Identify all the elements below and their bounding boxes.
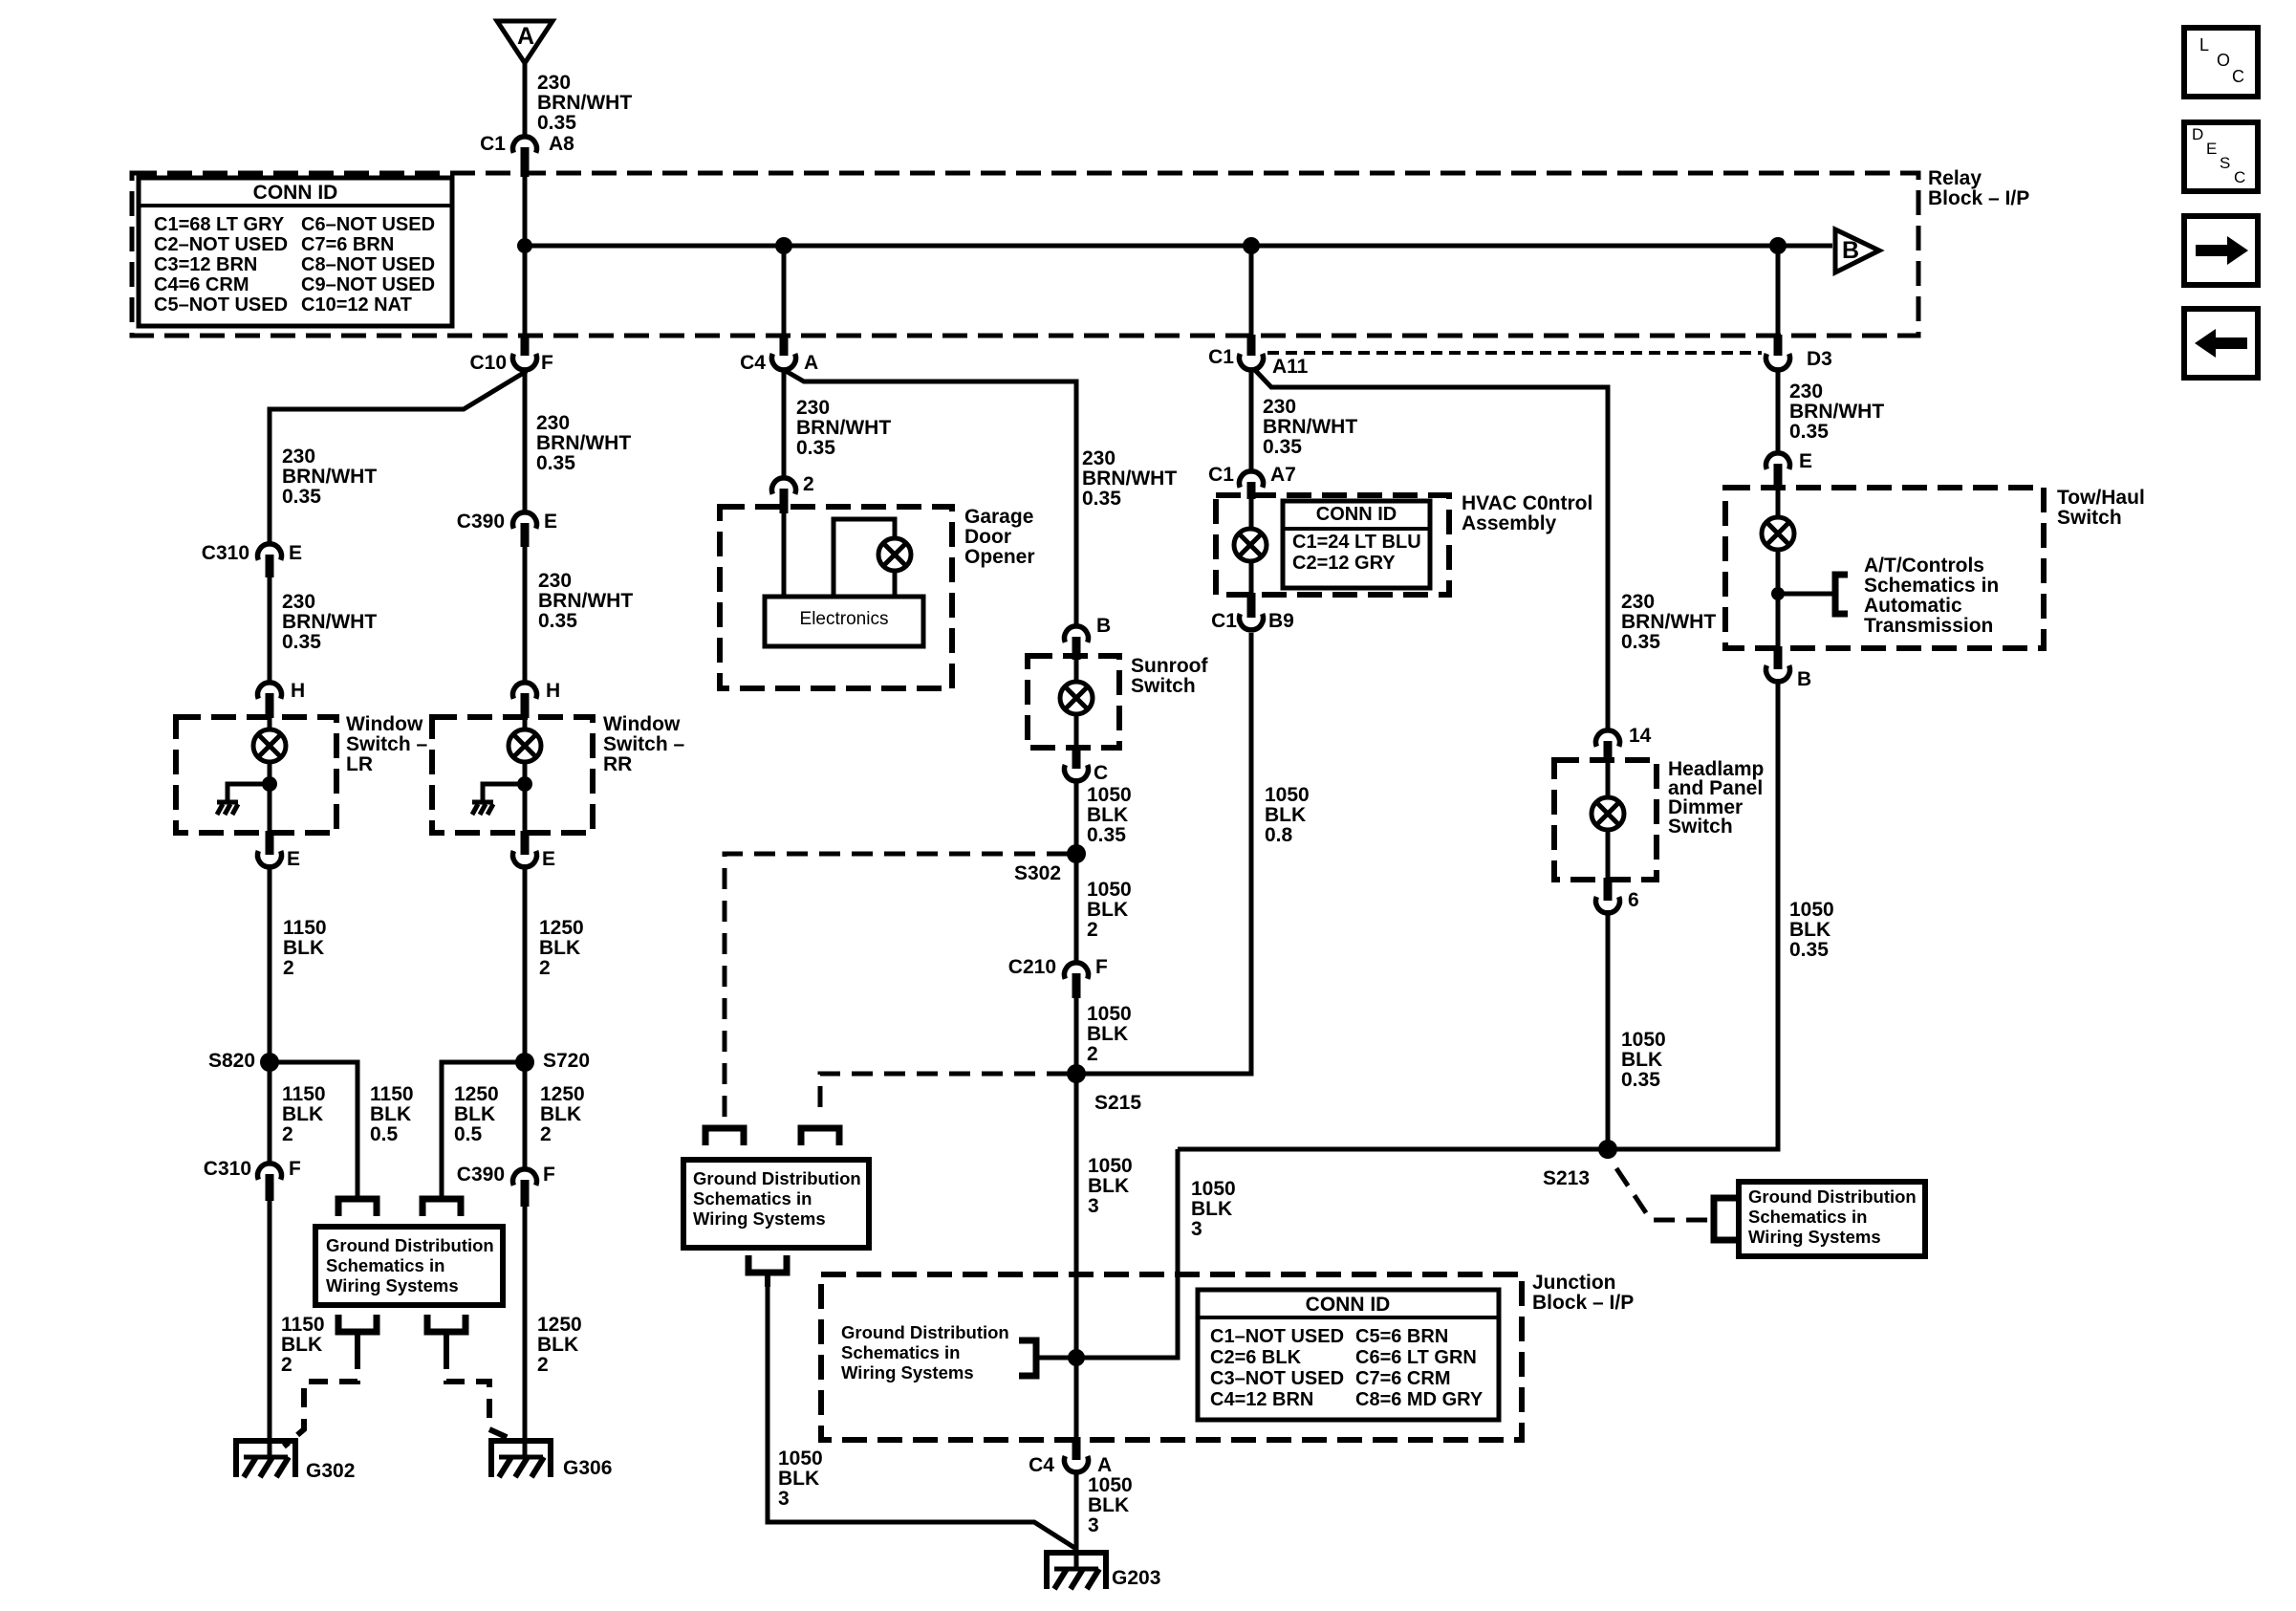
svg-text:BLK: BLK xyxy=(1191,1198,1232,1220)
svg-text:C1: C1 xyxy=(480,133,506,155)
svg-text:L: L xyxy=(2199,35,2209,54)
junction dot tow/haul xyxy=(1771,587,1785,600)
wire stub x820 relay xyxy=(782,246,787,337)
label A/T/Controls Schematics xyxy=(1864,555,1999,637)
svg-text:E: E xyxy=(287,848,300,870)
svg-text:S720: S720 xyxy=(543,1050,590,1072)
label 230 BRN/WHT 0.35 (left lower) xyxy=(282,591,377,653)
svg-text:RR: RR xyxy=(603,753,632,775)
connector C310 E xyxy=(202,542,302,577)
label 1150 BLK 2 (E to S820) xyxy=(283,917,327,979)
wire C310/F to G302 xyxy=(268,1199,272,1457)
wire D3 to E xyxy=(1776,370,1781,452)
svg-text:14: 14 xyxy=(1629,725,1652,747)
svg-text:2: 2 xyxy=(281,1354,292,1376)
svg-text:230: 230 xyxy=(282,591,315,613)
svg-text:0.35: 0.35 xyxy=(1789,421,1829,443)
svg-text:0.35: 0.35 xyxy=(536,452,575,474)
svg-text:0.8: 0.8 xyxy=(1265,824,1293,846)
svg-text:A/T/Controls: A/T/Controls xyxy=(1864,555,1984,577)
wire C4/A to G203 xyxy=(1074,1469,1079,1569)
ground distribution schematics box (right) xyxy=(1739,1182,1925,1256)
svg-text:2: 2 xyxy=(537,1354,549,1376)
svg-text:0.5: 0.5 xyxy=(370,1123,399,1145)
svg-text:BLK: BLK xyxy=(778,1468,819,1490)
splice S215 xyxy=(1067,1064,1141,1114)
svg-text:1150: 1150 xyxy=(281,1314,325,1336)
icon LOC xyxy=(2184,28,2258,97)
HVAC control assembly dashed box xyxy=(1216,495,1449,595)
svg-text:C1–NOT USED: C1–NOT USED xyxy=(1210,1326,1344,1347)
label 1050 BLK 2 (C210 to S215) xyxy=(1087,1003,1132,1065)
connector C1 A11 xyxy=(1208,335,1309,378)
svg-text:C2–NOT USED: C2–NOT USED xyxy=(154,234,288,255)
svg-text:BLK: BLK xyxy=(281,1334,322,1356)
bracket junction block xyxy=(1019,1340,1036,1376)
label Tow/Haul Switch xyxy=(2057,487,2145,529)
svg-text:Switch: Switch xyxy=(1668,816,1733,838)
label 230 BRN/WHT 0.35 (headlamp) xyxy=(1621,591,1716,653)
svg-text:BLK: BLK xyxy=(1789,919,1830,941)
ground distribution schematics box (left) xyxy=(315,1227,503,1305)
svg-text:C4: C4 xyxy=(740,352,766,374)
svg-text:Ground Distribution: Ground Distribution xyxy=(841,1322,1009,1342)
svg-text:Block – I/P: Block – I/P xyxy=(1532,1292,1634,1314)
svg-text:230: 230 xyxy=(1082,447,1116,469)
svg-text:A8: A8 xyxy=(549,133,574,155)
bracket into ground-distribution box (left) xyxy=(338,1199,377,1216)
svg-text:Ground Distribution: Ground Distribution xyxy=(693,1168,861,1188)
splice S720 xyxy=(515,1050,590,1072)
bracket below GD box (right) xyxy=(427,1315,466,1350)
svg-text:1050: 1050 xyxy=(1789,899,1834,921)
svg-text:230: 230 xyxy=(1263,396,1296,418)
svg-text:C1: C1 xyxy=(1208,346,1234,368)
connector H (LR) xyxy=(258,680,306,718)
svg-text:1150: 1150 xyxy=(370,1083,414,1105)
connector E (RR) xyxy=(513,831,556,870)
svg-text:Opener: Opener xyxy=(964,546,1035,568)
splice S302 xyxy=(1014,844,1086,884)
svg-text:2: 2 xyxy=(539,957,551,979)
svg-text:BLK: BLK xyxy=(1087,899,1128,921)
wire S820 to left bracket xyxy=(270,1062,357,1200)
connector C10 F xyxy=(469,335,553,374)
junction dot bus x1860 xyxy=(1769,237,1787,254)
wire C390/E to H xyxy=(523,545,528,681)
wire S720 down to C390/F xyxy=(523,1062,528,1168)
svg-text:1050: 1050 xyxy=(1087,784,1132,806)
svg-text:O: O xyxy=(2217,51,2230,70)
wire stub x1860 relay xyxy=(1776,246,1781,337)
svg-text:LR: LR xyxy=(346,753,373,775)
svg-text:2: 2 xyxy=(283,957,294,979)
svg-text:B: B xyxy=(1096,615,1111,637)
sunroof switch dashed box xyxy=(1028,656,1119,748)
svg-text:BLK: BLK xyxy=(539,937,580,959)
relay block dashed outline xyxy=(132,173,1918,336)
label 230 BRN/WHT 0.35 (right of C390) xyxy=(538,570,633,632)
CONN ID table (HVAC) xyxy=(1283,501,1430,588)
svg-text:C8–NOT USED: C8–NOT USED xyxy=(301,254,435,275)
wire 6 to S213 xyxy=(1606,910,1611,1149)
svg-text:Garage: Garage xyxy=(964,506,1033,528)
svg-text:HVAC C0ntrol: HVAC C0ntrol xyxy=(1462,492,1592,514)
svg-text:C10=12 NAT: C10=12 NAT xyxy=(301,294,412,316)
svg-text:1050: 1050 xyxy=(1621,1029,1666,1051)
svg-text:CONN ID: CONN ID xyxy=(1306,1294,1391,1316)
connector E (LR) xyxy=(258,831,301,870)
wire E to S720 xyxy=(523,864,528,1062)
svg-text:0.35: 0.35 xyxy=(1087,824,1126,846)
svg-text:D3: D3 xyxy=(1807,348,1832,370)
svg-text:S302: S302 xyxy=(1014,862,1061,884)
svg-text:S213: S213 xyxy=(1543,1167,1590,1189)
svg-text:Schematics in: Schematics in xyxy=(693,1188,812,1208)
connector 6 xyxy=(1595,878,1638,913)
junction dot LR xyxy=(262,776,277,792)
svg-text:C1=68 LT GRY: C1=68 LT GRY xyxy=(154,214,285,235)
svg-text:0.35: 0.35 xyxy=(537,112,576,134)
svg-text:Relay: Relay xyxy=(1928,167,1982,189)
connector 2 (garage door opener) xyxy=(772,473,814,513)
svg-text:BLK: BLK xyxy=(1088,1494,1129,1516)
svg-text:E: E xyxy=(544,511,557,533)
svg-text:Schematics in: Schematics in xyxy=(1864,575,1999,597)
ground tap RR xyxy=(483,784,525,802)
svg-text:1250: 1250 xyxy=(454,1083,499,1105)
svg-text:Transmission: Transmission xyxy=(1864,615,1993,637)
wire C4/A diagonal to sunroof feed xyxy=(786,371,1076,626)
svg-text:Schematics in: Schematics in xyxy=(326,1255,444,1275)
off-page connector triangle B xyxy=(1835,229,1879,272)
ground G203 xyxy=(1044,1553,1160,1589)
label 1050 BLK 0.35 (tow/haul down) xyxy=(1789,899,1834,961)
svg-text:C4=6 CRM: C4=6 CRM xyxy=(154,274,249,295)
label 1050 BLK 0.35 (sunroof) xyxy=(1087,784,1132,846)
junction dot bus x549 xyxy=(517,238,532,253)
CONN ID table (junction block) xyxy=(1198,1290,1499,1420)
bracket below GD box (left) xyxy=(338,1315,377,1350)
bracket into GD box3 xyxy=(1714,1198,1737,1240)
wire S720 to right bracket xyxy=(442,1062,525,1200)
svg-text:BLK: BLK xyxy=(1087,804,1128,826)
svg-text:B: B xyxy=(1842,237,1859,264)
icon DESC xyxy=(2184,122,2258,191)
dashed wire S213 to GD bracket xyxy=(1616,1168,1710,1220)
svg-text:E: E xyxy=(289,542,302,564)
lamp (garage door opener) xyxy=(834,519,911,599)
svg-text:C7=6 CRM: C7=6 CRM xyxy=(1355,1368,1450,1389)
label HVAC C0ntrol Assembly xyxy=(1462,492,1592,534)
svg-text:A7: A7 xyxy=(1270,464,1296,486)
dashed path to G302 xyxy=(284,1350,357,1447)
wire C4/A to connector 2 xyxy=(782,370,787,476)
svg-text:E: E xyxy=(2206,140,2217,158)
label 1150 BLK 0.5 xyxy=(370,1083,414,1145)
label 1050 BLK 3 (S215 down) xyxy=(1088,1155,1133,1217)
svg-text:Schematics in: Schematics in xyxy=(1748,1207,1867,1227)
svg-text:1150: 1150 xyxy=(282,1083,326,1105)
wire C210/F to S215 xyxy=(1074,996,1079,1074)
connector C4 A (junction block bottom) xyxy=(1029,1437,1112,1476)
svg-text:C: C xyxy=(1094,762,1108,784)
svg-text:E: E xyxy=(542,848,555,870)
svg-text:1250: 1250 xyxy=(539,917,584,939)
svg-text:BRN/WHT: BRN/WHT xyxy=(1621,611,1716,633)
svg-text:1050: 1050 xyxy=(1088,1474,1133,1496)
bus wire inside relay block xyxy=(525,244,1832,249)
svg-text:C4: C4 xyxy=(1029,1454,1054,1476)
svg-text:C1: C1 xyxy=(1211,610,1237,632)
lamp (HVAC) xyxy=(1234,499,1267,597)
svg-text:S215: S215 xyxy=(1094,1092,1141,1114)
svg-text:G203: G203 xyxy=(1112,1567,1160,1589)
wire stub x549 relay xyxy=(523,175,528,337)
bracket into GD box2 (left) xyxy=(705,1128,744,1145)
svg-text:Switch: Switch xyxy=(2057,507,2122,529)
garage door opener dashed box xyxy=(720,507,952,688)
svg-text:230: 230 xyxy=(282,446,315,468)
svg-text:B9: B9 xyxy=(1268,610,1294,632)
svg-text:C390: C390 xyxy=(457,511,505,533)
svg-text:C310: C310 xyxy=(202,542,249,564)
chassis ground (RR internal) xyxy=(472,802,493,815)
svg-text:CONN ID: CONN ID xyxy=(253,182,338,204)
wire to A/T bracket xyxy=(1778,592,1835,597)
svg-text:1050: 1050 xyxy=(778,1448,823,1469)
label Garage Door Opener xyxy=(964,506,1035,568)
svg-text:BLK: BLK xyxy=(537,1334,578,1356)
svg-text:1050: 1050 xyxy=(1265,784,1310,806)
svg-text:S820: S820 xyxy=(208,1050,255,1072)
wire stub x1309 relay xyxy=(1249,246,1254,337)
svg-text:Electronics: Electronics xyxy=(800,609,889,629)
svg-text:0.35: 0.35 xyxy=(1789,939,1829,961)
label 1250 BLK 2 (to G306) xyxy=(537,1314,582,1376)
svg-text:BRN/WHT: BRN/WHT xyxy=(282,611,377,633)
svg-text:Ground Distribution: Ground Distribution xyxy=(326,1235,494,1255)
wire S215 to junction block xyxy=(1074,1074,1079,1439)
svg-text:C210: C210 xyxy=(1008,956,1056,978)
connector C1 A7 xyxy=(1208,464,1296,499)
svg-text:230: 230 xyxy=(1621,591,1655,613)
label 1050 BLK 3 (junction drop) xyxy=(1191,1178,1236,1240)
svg-text:0.35: 0.35 xyxy=(538,610,577,632)
label 1250 BLK 0.5 xyxy=(454,1083,499,1145)
svg-text:1250: 1250 xyxy=(540,1083,585,1105)
wire C310/E to H xyxy=(268,576,272,681)
svg-text:2: 2 xyxy=(1087,919,1098,941)
svg-text:3: 3 xyxy=(778,1488,790,1510)
svg-text:C: C xyxy=(2234,168,2245,186)
svg-text:2: 2 xyxy=(282,1123,293,1145)
label Headlamp and Panel Dimmer Switch xyxy=(1668,758,1764,838)
wire lamp to box bottom LR xyxy=(268,761,272,834)
svg-text:BLK: BLK xyxy=(282,1103,323,1125)
svg-text:A: A xyxy=(517,23,534,50)
svg-text:0.35: 0.35 xyxy=(1082,488,1121,510)
connector D3 xyxy=(1766,335,1832,370)
svg-text:2: 2 xyxy=(540,1123,552,1145)
svg-text:Block – I/P: Block – I/P xyxy=(1928,187,2029,209)
svg-text:S: S xyxy=(2220,154,2230,172)
label 1250 BLK 2 (E to S720) xyxy=(539,917,584,979)
connector 14 xyxy=(1595,725,1651,762)
svg-text:1150: 1150 xyxy=(283,917,327,939)
svg-text:3: 3 xyxy=(1088,1195,1099,1217)
connector B (sunroof) xyxy=(1065,615,1112,660)
ground tap LR xyxy=(227,784,270,802)
svg-text:Switch: Switch xyxy=(1131,675,1196,697)
svg-text:C6=6 LT GRN: C6=6 LT GRN xyxy=(1355,1347,1477,1368)
Electronics box xyxy=(765,597,923,646)
bracket into GD box2 (right) xyxy=(801,1128,839,1145)
svg-text:F: F xyxy=(543,1164,555,1186)
svg-text:C9–NOT USED: C9–NOT USED xyxy=(301,274,435,295)
wire lamp to box bottom RR xyxy=(523,761,528,834)
label 1050 BLK 3 (C4 to G203) xyxy=(1088,1474,1133,1536)
svg-text:Tow/Haul: Tow/Haul xyxy=(2057,487,2145,509)
svg-text:BLK: BLK xyxy=(370,1103,411,1125)
svg-text:BLK: BLK xyxy=(283,937,324,959)
connector C390 E xyxy=(457,511,557,547)
wire A down to C1/A8 xyxy=(523,61,528,135)
svg-text:F: F xyxy=(289,1158,301,1180)
lamp (headlamp dimmer) xyxy=(1592,760,1624,882)
label Junction Block - I/P xyxy=(1532,1272,1634,1314)
svg-text:C10: C10 xyxy=(469,352,507,374)
svg-text:2: 2 xyxy=(803,473,814,495)
label Window Switch - LR xyxy=(346,713,428,775)
wire C390/F to G306 xyxy=(523,1205,528,1457)
wire C10/F diagonal to left branch xyxy=(270,371,527,542)
svg-text:E: E xyxy=(1799,450,1812,472)
svg-text:Junction: Junction xyxy=(1532,1272,1616,1294)
ground G306 xyxy=(488,1441,612,1479)
svg-text:0.35: 0.35 xyxy=(282,631,321,653)
junction block dashed outline xyxy=(821,1274,1522,1440)
svg-text:B: B xyxy=(1797,668,1811,690)
svg-text:Wiring Systems: Wiring Systems xyxy=(326,1275,459,1295)
svg-text:C5–NOT USED: C5–NOT USED xyxy=(154,294,288,316)
svg-text:1050: 1050 xyxy=(1088,1155,1133,1177)
label 230 BRN/WHT 0.35 (feed) xyxy=(537,72,632,134)
tow/haul switch dashed box xyxy=(1725,488,2044,648)
svg-text:BRN/WHT: BRN/WHT xyxy=(796,417,891,439)
svg-text:BLK: BLK xyxy=(540,1103,581,1125)
svg-text:Schematics in: Schematics in xyxy=(841,1342,960,1362)
dashed path to G306 xyxy=(446,1350,509,1438)
label 1050 BLK 0.35 (dimmer down) xyxy=(1621,1029,1666,1091)
svg-text:C2=6 BLK: C2=6 BLK xyxy=(1210,1347,1302,1368)
label 1250 BLK 2 (S720 branch) xyxy=(540,1083,585,1145)
label 230 BRN/WHT 0.35 (D3 to E) xyxy=(1789,381,1884,443)
label Sunroof Switch xyxy=(1131,655,1208,697)
label 230 BRN/WHT 0.35 (A11 to A7) xyxy=(1263,396,1357,458)
svg-text:C5=6 BRN: C5=6 BRN xyxy=(1355,1326,1448,1347)
svg-text:Sunroof: Sunroof xyxy=(1131,655,1208,677)
svg-text:C8=6 MD GRY: C8=6 MD GRY xyxy=(1355,1389,1484,1410)
connector C (sunroof) xyxy=(1065,746,1109,784)
svg-text:C4=12 BRN: C4=12 BRN xyxy=(1210,1389,1313,1410)
svg-text:Ground Distribution: Ground Distribution xyxy=(1748,1186,1917,1207)
svg-text:0.35: 0.35 xyxy=(796,437,835,459)
label 1150 BLK 2 (to G302) xyxy=(281,1314,325,1376)
label 230 BRN/WHT 0.35 (below C10/F) xyxy=(536,412,631,474)
svg-text:230: 230 xyxy=(1789,381,1823,403)
label Relay Block - I/P xyxy=(1928,167,2029,209)
svg-text:1050: 1050 xyxy=(1191,1178,1236,1200)
svg-text:G306: G306 xyxy=(563,1457,612,1479)
icon arrow right xyxy=(2184,216,2258,285)
splice S820 xyxy=(208,1050,279,1072)
svg-text:C: C xyxy=(2232,67,2244,86)
label 230 BRN/WHT 0.35 (garage feed) xyxy=(796,397,891,459)
headlamp dimmer dashed box xyxy=(1554,760,1657,880)
window switch RR dashed box xyxy=(432,717,593,833)
svg-text:CONN ID: CONN ID xyxy=(1316,504,1397,525)
label 230 BRN/WHT 0.35 (sunroof feed) xyxy=(1082,447,1177,510)
svg-text:0.35: 0.35 xyxy=(282,486,321,508)
svg-text:BLK: BLK xyxy=(1087,1023,1128,1045)
svg-text:Door: Door xyxy=(964,526,1011,548)
CONN ID table (relay block) xyxy=(139,178,452,326)
svg-text:BRN/WHT: BRN/WHT xyxy=(282,466,377,488)
svg-text:BRN/WHT: BRN/WHT xyxy=(1789,401,1884,423)
svg-text:230: 230 xyxy=(538,570,572,592)
window switch LR dashed box xyxy=(176,717,336,833)
wire S302 to C210/F xyxy=(1074,854,1079,962)
wire E to S820 xyxy=(268,864,272,1062)
connector C1 A8 xyxy=(480,133,574,177)
svg-text:230: 230 xyxy=(537,72,571,94)
junction dot RR xyxy=(517,776,532,792)
bracket A/T controls xyxy=(1835,575,1848,614)
ground distribution schematics box (middle) xyxy=(683,1160,869,1248)
svg-text:BRN/WHT: BRN/WHT xyxy=(536,432,631,454)
dashed wire S215 to bracket xyxy=(820,1074,1068,1113)
junction dot bus x1309 xyxy=(1243,237,1260,254)
svg-text:Wiring Systems: Wiring Systems xyxy=(841,1362,974,1382)
svg-text:C6–NOT USED: C6–NOT USED xyxy=(301,214,435,235)
svg-text:C390: C390 xyxy=(457,1164,505,1186)
connector E (tow/haul) xyxy=(1766,450,1813,490)
wire B to S213 corner xyxy=(1178,679,1778,1149)
label Window Switch - RR xyxy=(603,713,685,775)
svg-text:Window: Window xyxy=(603,713,681,735)
wire S820 down to C310/F xyxy=(268,1062,272,1163)
svg-text:0.5: 0.5 xyxy=(454,1123,483,1145)
dotted line A11 to D3 xyxy=(1267,351,1762,355)
svg-text:Assembly: Assembly xyxy=(1462,512,1557,534)
svg-text:Switch –: Switch – xyxy=(346,733,428,755)
connector C310 F xyxy=(204,1158,301,1201)
label ground distribution (junction block) xyxy=(841,1322,1009,1382)
svg-text:BRN/WHT: BRN/WHT xyxy=(537,92,632,114)
svg-text:2: 2 xyxy=(1087,1043,1098,1065)
label 1050 BLK 0.8 xyxy=(1265,784,1310,846)
svg-text:Wiring Systems: Wiring Systems xyxy=(1748,1227,1881,1247)
svg-text:Switch –: Switch – xyxy=(603,733,685,755)
wire S215 to HVAC ground xyxy=(1076,633,1251,1074)
wire C to S302 xyxy=(1074,778,1079,854)
svg-text:C7=6 BRN: C7=6 BRN xyxy=(301,234,394,255)
svg-text:F: F xyxy=(541,352,553,374)
svg-text:H: H xyxy=(546,680,560,702)
svg-text:BRN/WHT: BRN/WHT xyxy=(538,590,633,612)
svg-text:0.35: 0.35 xyxy=(1263,436,1302,458)
